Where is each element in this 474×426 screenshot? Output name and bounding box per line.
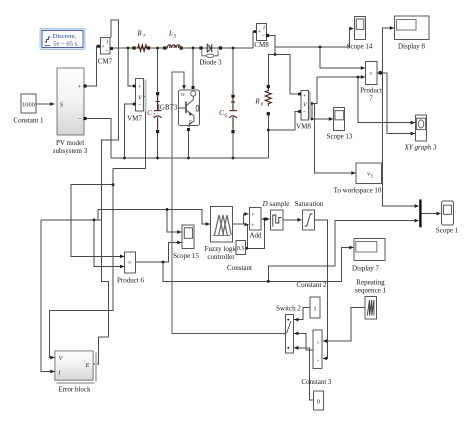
wire mux out to scope1 <box>422 213 441 215</box>
svg-text:Scope 13: Scope 13 <box>327 133 353 141</box>
wire IGBT collector riser <box>192 48 194 86</box>
capacitor C7 <box>147 92 161 133</box>
svg-text:Scope 1: Scope 1 <box>436 227 459 235</box>
wire gate drive line from switch2 <box>172 72 286 333</box>
switch Switch 2 <box>276 305 301 354</box>
svg-text:C: C <box>147 109 152 117</box>
voltage measurement VM8 <box>296 91 311 131</box>
signal arrowheads <box>50 26 440 373</box>
to workspace To workspace 10 <box>334 163 382 195</box>
scope Scope 14 <box>347 17 373 51</box>
wire V to product7 in2 <box>317 76 365 78</box>
wire i signal to product7 in1 <box>320 47 365 68</box>
svg-text:XY graph 3: XY graph 3 <box>404 144 437 152</box>
svg-text:Constant 3: Constant 3 <box>301 378 332 386</box>
constant 0.5 <box>227 241 252 273</box>
voltage measurement VM7 <box>127 79 146 123</box>
svg-text:R: R <box>136 30 142 38</box>
wire product6 out to scope15 in2 <box>163 243 181 263</box>
svg-text:E: E <box>85 362 90 369</box>
svg-text:−: − <box>104 48 108 55</box>
svg-text:subsystem 3: subsystem 3 <box>53 147 88 155</box>
svg-text:+: + <box>317 358 320 363</box>
wire C6 to bus <box>232 132 234 158</box>
svg-text:+: + <box>138 84 142 91</box>
wire node to R6 <box>268 55 275 86</box>
scope Scope 15 <box>173 225 199 260</box>
wire VM8 V output junction <box>309 77 318 104</box>
wire VM7 minus to bus <box>125 104 135 158</box>
inductor L3 <box>163 30 183 50</box>
svg-text:×: × <box>128 259 132 266</box>
relational operator comparator <box>313 330 322 369</box>
svg-text:7: 7 <box>369 95 373 103</box>
wire C7 riser <box>157 48 159 92</box>
svg-text:PV model: PV model <box>56 139 84 147</box>
wire R6 to bus <box>267 115 269 158</box>
svg-text:i: i <box>263 25 265 32</box>
svg-text:Display 8: Display 8 <box>398 43 426 51</box>
wire R6 node to VM8 minus <box>268 112 299 131</box>
wire IGBT emitter to bus <box>188 131 190 158</box>
wire E line branch to scope15 in1 <box>167 209 181 232</box>
svg-text:+: + <box>251 222 255 229</box>
diode Diode 3 <box>199 44 222 66</box>
wire product6 out <box>135 261 163 263</box>
svg-text:×: × <box>369 70 373 77</box>
svg-text:1: 1 <box>313 305 316 312</box>
wire I-net riser to E line <box>97 209 99 220</box>
wire I-net to error I input <box>41 220 55 372</box>
svg-text:1000: 1000 <box>22 101 35 108</box>
wire product7 out to XY graph in2 <box>383 73 415 134</box>
svg-text:sequence 1: sequence 1 <box>355 287 386 295</box>
scope Scope 1 <box>436 201 459 235</box>
svg-text:L: L <box>168 30 173 38</box>
wire I-net horizontal <box>41 219 102 221</box>
wire V-net branch to product6 in1 <box>71 185 124 257</box>
wire constant2 value1 to switch2 <box>294 307 310 319</box>
svg-text:Product: Product <box>360 87 382 95</box>
svg-text:Diode 3: Diode 3 <box>199 59 222 67</box>
constant Constant 3 value 0 <box>301 378 332 410</box>
wire constant3 zero to switch2 <box>294 348 313 400</box>
svg-text:−: − <box>303 109 307 116</box>
repeating sequence 1 <box>355 279 386 319</box>
svg-text:Product 6: Product 6 <box>117 277 145 285</box>
wire VM7 V output down-left V-net <box>50 97 146 358</box>
svg-text:Saturation: Saturation <box>295 200 324 208</box>
wire VM8 V to workspace10 <box>315 104 356 174</box>
svg-text:Fuzzy logic: Fuzzy logic <box>205 245 238 253</box>
saturation block <box>295 200 324 230</box>
scope Scope 13 <box>327 108 353 141</box>
current measurement CM7 <box>97 38 113 66</box>
wire add out to D sample <box>261 218 270 220</box>
current measurement CM8 <box>254 24 270 49</box>
wire comparator out to switch2 <box>294 333 313 350</box>
node junction dots <box>93 46 383 283</box>
wire CM8 minus to load node <box>268 36 276 55</box>
svg-text:To workspace 10: To workspace 10 <box>334 187 382 195</box>
resistor R6 vertical <box>254 85 271 115</box>
fuzzy logic controller <box>205 206 238 261</box>
wire C7 to bus <box>157 132 159 158</box>
svg-text:+: + <box>303 93 307 100</box>
constant Constant 2 value 1 <box>296 281 327 318</box>
svg-text:Discrete,: Discrete, <box>53 33 77 40</box>
wire PV minus to bottom bus <box>85 119 111 159</box>
svg-text:VM8: VM8 <box>296 123 311 131</box>
wire error E output <box>93 363 99 365</box>
svg-text:controller: controller <box>207 253 235 261</box>
wire repeating sequence to comparator <box>323 308 365 341</box>
wire C6 riser <box>232 48 234 94</box>
wire bus to CM8 plus <box>253 32 255 49</box>
wire constant 0.5 to add in2 <box>246 225 249 249</box>
subsystem Error block <box>55 351 97 394</box>
constant Constant 1 <box>13 94 44 125</box>
svg-text:Repeating: Repeating <box>356 279 385 287</box>
resistor R7 <box>132 30 150 52</box>
svg-text:CM8: CM8 <box>254 41 269 49</box>
wire VM7 plus drop <box>128 48 134 86</box>
svg-text:−: − <box>78 116 82 123</box>
product Product 6 <box>117 252 145 285</box>
wire node to VM8 plus <box>275 55 300 95</box>
svg-text:R: R <box>254 98 260 106</box>
wire I-net to product6 in2 <box>94 220 124 267</box>
svg-text:−: − <box>138 102 142 109</box>
svg-text:Switch 2: Switch 2 <box>276 305 301 313</box>
wire constant1 to PV model <box>36 103 55 105</box>
wire E line to fuzzy <box>98 209 210 224</box>
wire bottom bus <box>111 157 268 159</box>
svg-text:0: 0 <box>317 399 320 406</box>
svg-text:+: + <box>251 212 255 219</box>
svg-text:5e − 05 s.: 5e − 05 s. <box>53 40 79 47</box>
svg-text:m: m <box>188 120 194 124</box>
svg-text:i: i <box>106 38 108 45</box>
svg-text:+: + <box>78 84 82 91</box>
wire fuzzy out to add in1 <box>232 214 248 224</box>
svg-text:Display 7: Display 7 <box>352 265 380 273</box>
mux <box>419 200 421 228</box>
svg-text:D sample: D sample <box>262 200 290 208</box>
wire CM7 i output up and over <box>94 20 119 364</box>
svg-text:Add: Add <box>249 232 262 240</box>
wire product7 out to mux in1 <box>383 73 419 206</box>
xy graph XY graph 3 <box>404 115 437 151</box>
svg-text:Constant 1: Constant 1 <box>13 117 44 125</box>
wire CM8 i signal line <box>275 29 354 48</box>
svg-text:Constant 2: Constant 2 <box>296 281 327 289</box>
wire product7 out to display8 <box>377 28 394 73</box>
wire VM8 V to scope13 <box>312 104 333 120</box>
svg-text:IGBT3: IGBT3 <box>158 104 178 112</box>
IGBT transistor IGBT3 <box>158 86 200 131</box>
svg-text:C: C <box>219 109 224 117</box>
svg-text:Scope 15: Scope 15 <box>173 252 199 260</box>
capacitor C6 <box>219 95 237 134</box>
sum Add <box>249 207 262 239</box>
subsystem PV model subsystem 3 <box>53 68 88 155</box>
wire V branch to XY graph in1 <box>358 77 415 123</box>
svg-text:Constant: Constant <box>227 264 252 272</box>
svg-text:VM7: VM7 <box>127 115 142 123</box>
svg-text:0.5: 0.5 <box>237 246 244 252</box>
svg-text:CM7: CM7 <box>98 58 113 66</box>
product Product 7 <box>360 61 382 102</box>
wire P line to mux in2 <box>268 221 418 282</box>
wire D sample to saturation <box>283 219 302 221</box>
svg-text:−: − <box>261 33 265 40</box>
zero-order hold D sample <box>262 200 290 230</box>
wire 0.5 tee to add out line <box>248 219 265 248</box>
wire product6 out down to P line <box>163 262 342 281</box>
svg-text:Error block: Error block <box>58 386 91 394</box>
svg-text:g: g <box>180 93 186 96</box>
wire P line to display7 <box>342 248 354 282</box>
wire main DC bus top <box>111 47 254 49</box>
wire PV plus to CM7 <box>85 46 98 86</box>
powergui Discrete block <box>40 29 85 50</box>
display Display 8 <box>395 16 430 51</box>
wire saturation out down to comparator <box>314 220 327 358</box>
svg-text:Scope 14: Scope 14 <box>347 43 373 51</box>
display Display 7 <box>352 239 385 273</box>
